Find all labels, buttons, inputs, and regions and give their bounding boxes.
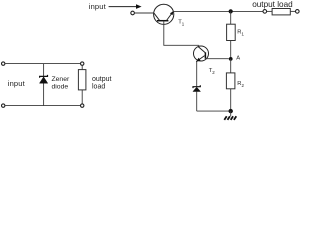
wire: load box to right terminal [290,10,295,12]
zener diode D1 triangle [40,77,48,83]
wire: left circuit top rail [5,63,80,65]
wire: stub from top terminal to load box [81,65,83,69]
wire: T1 base to T2 collector horizontal [163,44,198,46]
svg-text:output load: output load [252,0,293,9]
resistor R2 box [226,73,235,89]
output load box (left circuit) [78,70,86,90]
wire: top output rail [173,10,263,12]
transistor T2 collector lead [199,47,205,53]
transistor T1 base bar [157,20,168,22]
wire: T2 base to node A [205,58,229,60]
wire: junction to R1 [230,11,232,24]
input arrow shaft [109,6,137,8]
junction dot at bottom rail [229,109,233,113]
wire: terminal to load box [267,10,272,12]
junction dot at R1 top [229,9,233,13]
svg-text:input: input [89,2,107,11]
transistor T1 emitter lead [167,12,174,21]
svg-text:diode: diode [52,83,69,90]
wire: bottom rail [197,110,231,112]
ground symbol (hatched) [224,116,236,120]
input terminal (open circle) [131,11,135,15]
wire: left circuit bottom rail [5,105,80,107]
output load box (right circuit) [272,9,290,15]
transistor T2 emitter lead [196,56,204,62]
wire: R1 to node A [230,41,232,59]
transistor T1 emitter arrow [170,11,174,15]
output load terminal (top, open circle) [81,62,84,65]
wire: down into T2 collector [198,45,200,48]
resistor R1 box [227,24,236,40]
wire: zener branch vertical [43,64,45,106]
output load terminal (left, open circle) [263,10,267,14]
transistor T2 emitter arrow [196,58,201,62]
wire: ground stub [230,111,232,116]
wire: zener to bottom rail [196,92,198,112]
input terminal (bottom-left, open circle) [2,104,5,107]
wire: R2 to bottom rail [230,89,232,111]
wire: stub from load box to bottom terminal [81,90,83,104]
transistor T2 base bar [204,52,206,58]
output load terminal (bottom, open circle) [81,104,84,107]
wire: T2 emitter down to zener [196,61,198,86]
zener diode D2 cathode bar [193,85,200,88]
input terminal (top-left, open circle) [2,62,5,65]
svg-text:output: output [92,76,112,83]
input arrow head [136,4,142,9]
wire: input terminal to T1 collector [135,12,154,14]
wire: T1 base down [163,21,165,46]
svg-text:load: load [92,83,105,90]
svg-text:input: input [8,79,26,88]
svg-text:Zener: Zener [52,76,70,83]
svg-text:A: A [236,56,240,62]
output load terminal (right, open circle) [296,10,300,14]
zener diode D1 cathode bar [40,75,48,78]
node A junction dot [229,57,233,61]
transistor T2 body circle [194,46,209,61]
transistor T1 collector lead [154,13,160,20]
transistor T1 body circle [154,4,174,24]
wire: node A to R2 [230,59,232,73]
zener diode D2 triangle [193,87,201,91]
